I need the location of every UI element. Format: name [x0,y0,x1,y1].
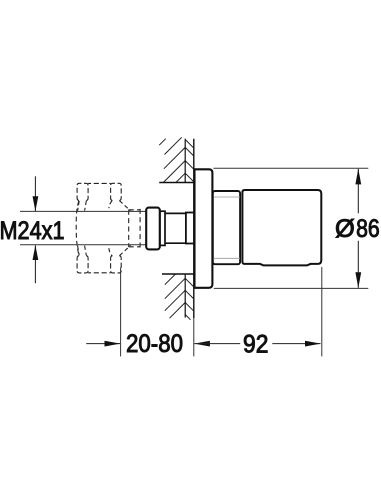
diameter 86 dimension line top [357,169,359,214]
transition ring [160,211,165,245]
diameter 86 arrow top [355,169,361,185]
M24 tube outline / extension lines [20,210,146,212]
diameter 86 extension line bottom [214,287,368,289]
handle neck chamfer line top [214,196,240,198]
shaft bottom line [165,242,186,244]
shaft top line [165,212,186,214]
20-80 arrow right [194,341,210,347]
valve body top-right stub (dashed) [111,183,122,200]
wall upper band left line [184,139,186,183]
svg-text:92: 92 [243,330,268,358]
collar [146,208,160,250]
handle grip [242,190,321,265]
92 dimension line left [194,343,240,345]
92 dimension line right [272,343,320,345]
handle neck [213,191,240,264]
escutcheon plate [195,169,213,287]
handle neck chamfer line bottom [214,257,240,259]
diameter 86 arrow bottom [355,272,361,288]
svg-text:Ø: Ø [335,215,355,243]
svg-text:M24x1: M24x1 [0,217,65,245]
valve body bottom bridge (dashed) [88,272,111,274]
M24x1 dimension line bottom [34,245,36,283]
valve body stub flares (dashed) [78,201,131,256]
20-80 arrow left [105,341,121,347]
valve body top-left stub (dashed) [77,183,88,200]
wall upper plaster band hatch [185,140,193,182]
svg-text:86: 86 [356,215,380,243]
wall lower masonry hatch [165,274,185,318]
wall upper masonry hatch [159,137,185,182]
wall sleeve ring [186,213,194,244]
M24x1 arrow bottom [33,245,39,260]
wall face line [193,139,195,318]
20-80 dimension tail left [86,343,120,345]
valve body bottom-left stub (dashed) [77,256,88,273]
valve body left dome curve (dashed) [76,201,79,255]
wall face extension line below [193,318,195,356]
wall lower opening edge [162,273,194,275]
wall lower band left line [184,274,186,318]
wall lower plaster band hatch [185,278,193,320]
valve body right flange (dashed verticals) [129,209,140,248]
M24x1 arrow top [33,196,39,211]
diameter 86 dimension line bottom [357,241,359,288]
valve body top bridge (dashed) [88,182,111,184]
wall upper opening edge [159,182,194,184]
svg-text:20-80: 20-80 [126,330,183,358]
20-80 extension line [120,268,122,357]
valve body bottom-right stub (dashed) [111,256,122,273]
92 extension line [321,267,323,356]
M24x1 dimension line top [34,176,36,211]
92 arrow right [305,341,321,347]
diameter 86 extension line top [213,167,368,169]
